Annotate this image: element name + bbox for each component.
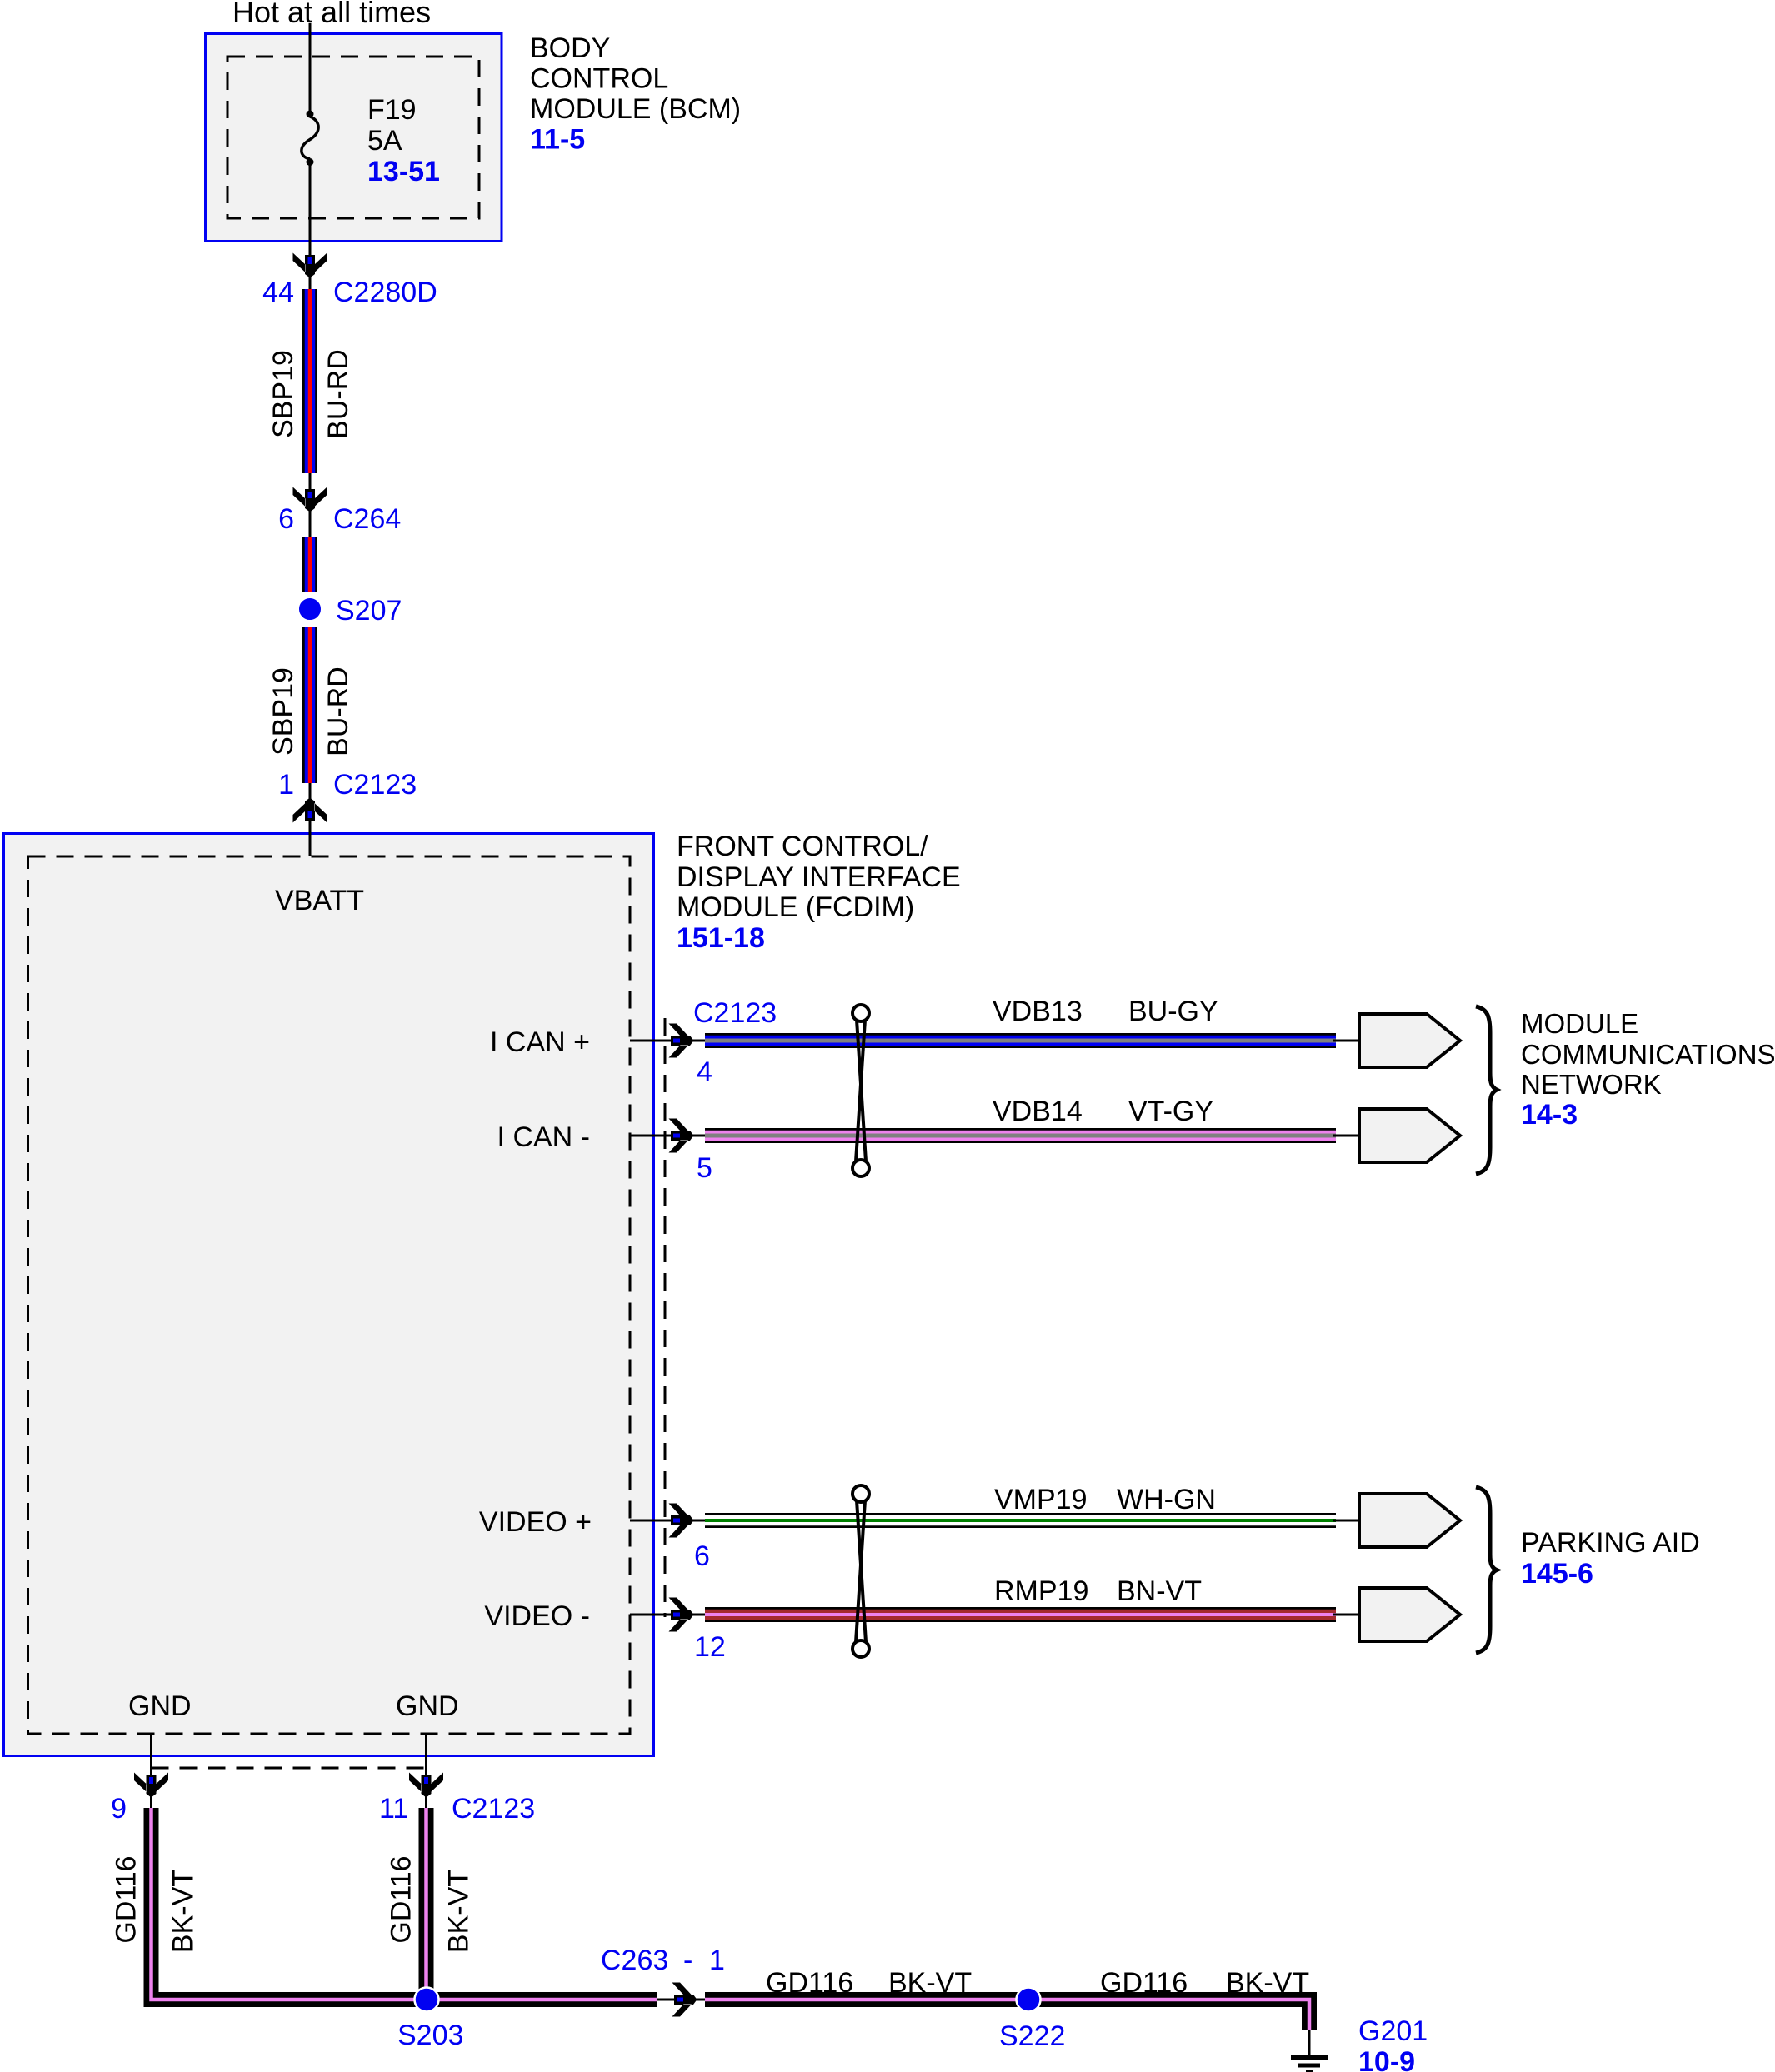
svg-text:10-9: 10-9 xyxy=(1358,2046,1415,2072)
svg-text:GD116: GD116 xyxy=(1100,1967,1187,1999)
svg-text:VIDEO +: VIDEO + xyxy=(479,1506,592,1538)
svg-text:12: 12 xyxy=(694,1631,726,1663)
svg-text:BODY: BODY xyxy=(530,32,610,64)
svg-text:G201: G201 xyxy=(1358,2015,1427,2047)
wire: between segment 1 and C264 xyxy=(309,473,312,537)
splice S207 xyxy=(298,597,322,622)
svg-text:BK-VT: BK-VT xyxy=(167,1870,199,1953)
wire RMP19 BN-VT xyxy=(705,1607,1336,1622)
svg-text:FRONT CONTROL/: FRONT CONTROL/ xyxy=(677,831,928,862)
svg-text:SBP19: SBP19 xyxy=(267,350,299,438)
svg-text:145-6: 145-6 xyxy=(1521,1558,1593,1590)
connector C2123 dashed line (right of FCDIM) xyxy=(664,1018,667,1617)
connector arrow C2123 pin 9 xyxy=(134,1773,168,1798)
pin 5 lead wire xyxy=(630,1135,705,1137)
splice S203 xyxy=(415,1988,439,2012)
svg-text:CONTROL: CONTROL xyxy=(530,63,668,95)
lead to off-page connector (pin 5) xyxy=(1333,1135,1362,1137)
svg-text:VDB13: VDB13 xyxy=(992,996,1082,1027)
connector arrow C2123 pin 12 xyxy=(669,1598,694,1632)
svg-text:6: 6 xyxy=(694,1540,710,1572)
wire SBP19 BU-RD segment 3 xyxy=(302,627,317,783)
svg-text:151-18: 151-18 xyxy=(677,922,765,954)
svg-text:GND: GND xyxy=(128,1690,192,1722)
svg-text:1: 1 xyxy=(709,1945,725,1976)
connector arrow at C264 xyxy=(293,487,327,512)
twisted pair symbol (I CAN) xyxy=(852,1005,869,1176)
lead wire to ground G201 xyxy=(1308,2030,1311,2057)
svg-text:S203: S203 xyxy=(397,2020,463,2051)
module FCDIM (FRONT CONTROL/DISPLAY INTERFACE MODULE) box xyxy=(4,834,654,1756)
svg-text:5A: 5A xyxy=(367,125,402,157)
twisted pair symbol (VIDEO) xyxy=(852,1485,869,1657)
wire: battery feed into BCM fuse xyxy=(309,23,312,114)
svg-text:MODULE (BCM): MODULE (BCM) xyxy=(530,93,741,125)
wire GD116 BK-VT left (down and right to S203) xyxy=(152,1808,427,2000)
svg-text:1: 1 xyxy=(278,769,294,801)
wire SBP19 BU-RD segment 1 xyxy=(302,289,317,473)
svg-text:I CAN +: I CAN + xyxy=(490,1026,590,1058)
lead to off-page connector (pin 12) xyxy=(1333,1614,1362,1616)
connector arrow into FCDIM xyxy=(293,798,327,823)
svg-text:I CAN -: I CAN - xyxy=(497,1121,590,1153)
svg-text:F19: F19 xyxy=(367,94,417,126)
svg-text:GD116: GD116 xyxy=(386,1855,417,1943)
svg-text:11: 11 xyxy=(379,1793,408,1825)
lead to off-page connector (pin 6) xyxy=(1333,1520,1362,1522)
svg-text:MODULE (FCDIM): MODULE (FCDIM) xyxy=(677,891,914,923)
svg-text:6: 6 xyxy=(278,503,294,535)
connector arrow at C2280D xyxy=(293,253,327,278)
pin 12 lead wire xyxy=(630,1614,705,1616)
svg-text:C264: C264 xyxy=(333,503,401,535)
ground G201 symbol xyxy=(1291,2055,1327,2072)
connector arrow C2123 pin 11 xyxy=(409,1773,443,1798)
brace: module communications network group xyxy=(1476,1006,1497,1174)
splice S222 xyxy=(1017,1988,1041,2012)
svg-text:C2123: C2123 xyxy=(693,997,777,1029)
svg-text:BK-VT: BK-VT xyxy=(443,1870,475,1953)
svg-text:VIDEO -: VIDEO - xyxy=(484,1600,590,1632)
svg-text:4: 4 xyxy=(697,1056,712,1088)
module BCM (BODY CONTROL MODULE) box xyxy=(206,34,502,242)
fuse F19 5A xyxy=(302,111,318,167)
connector arrow C2123 pin 6 xyxy=(669,1504,694,1538)
svg-text:VBATT: VBATT xyxy=(275,885,364,916)
wire: into FCDIM VBATT pin xyxy=(309,783,312,856)
svg-text:VT-GY: VT-GY xyxy=(1128,1096,1213,1127)
svg-text:GND: GND xyxy=(396,1690,459,1722)
svg-text:C2123: C2123 xyxy=(333,769,417,801)
svg-text:Hot at all times: Hot at all times xyxy=(232,0,431,29)
label: fuse F19 5A 13-51 xyxy=(367,94,440,187)
label: FRONT CONTROL/DISPLAY INTERFACE MODULE (FCDIM) 151-18 xyxy=(677,831,961,954)
svg-text:BK-VT: BK-VT xyxy=(888,1967,972,1999)
FCDIM internal connector dashed box xyxy=(28,856,631,1734)
wire VDB13 BU-GY xyxy=(705,1033,1336,1048)
svg-text:C2123: C2123 xyxy=(452,1793,535,1825)
svg-text:S222: S222 xyxy=(999,2020,1065,2052)
off-page connector (VIDEO -) xyxy=(1359,1588,1460,1641)
label: MODULE COMMUNICATIONS NETWORK 14-3 xyxy=(1521,1008,1775,1131)
wire lead through C263 break xyxy=(657,1999,705,2001)
off-page connector (VIDEO +) xyxy=(1359,1494,1460,1547)
svg-text:BK-VT: BK-VT xyxy=(1226,1967,1309,1999)
off-page connector (I CAN -) xyxy=(1359,1109,1460,1162)
wire VMP19 WH-GN xyxy=(705,1513,1336,1528)
wire VDB14 VT-GY xyxy=(705,1128,1336,1143)
svg-text:11-5: 11-5 xyxy=(530,124,585,156)
svg-text:SBP19: SBP19 xyxy=(267,667,299,756)
svg-text:GD116: GD116 xyxy=(766,1967,853,1999)
connector arrow C2123 pin 4 xyxy=(669,1024,694,1058)
svg-text:DISPLAY INTERFACE: DISPLAY INTERFACE xyxy=(677,861,961,893)
connector arrow at C263 xyxy=(672,1983,697,2017)
svg-text:13-51: 13-51 xyxy=(367,156,440,187)
svg-text:VMP19: VMP19 xyxy=(994,1484,1087,1515)
wire GD116 BK-VT from C263 to ground (through S222) xyxy=(705,2000,1309,2030)
svg-text:-: - xyxy=(683,1945,692,1976)
svg-text:VDB14: VDB14 xyxy=(992,1096,1082,1127)
pin 4 lead wire xyxy=(630,1040,705,1042)
label: PARKING AID 145-6 xyxy=(1521,1527,1700,1590)
svg-text:WH-GN: WH-GN xyxy=(1117,1484,1216,1515)
svg-text:44: 44 xyxy=(262,277,294,308)
svg-text:NETWORK: NETWORK xyxy=(1521,1069,1662,1100)
GND pin wire left xyxy=(150,1734,152,1808)
svg-text:COMMUNICATIONS: COMMUNICATIONS xyxy=(1521,1039,1775,1070)
svg-text:RMP19: RMP19 xyxy=(994,1575,1088,1607)
off-page connector (I CAN +) xyxy=(1359,1014,1460,1067)
label: BODY CONTROL MODULE (BCM) 11-5 xyxy=(530,32,741,156)
svg-text:9: 9 xyxy=(111,1793,127,1825)
connector arrow C2123 pin 5 xyxy=(669,1119,694,1153)
GND pin wire right xyxy=(425,1734,427,1808)
svg-text:BU-RD: BU-RD xyxy=(322,667,354,756)
svg-text:14-3: 14-3 xyxy=(1521,1099,1577,1131)
svg-text:GD116: GD116 xyxy=(111,1855,142,1943)
lead to off-page connector (pin 4) xyxy=(1333,1040,1362,1042)
wire: BCM fuse output down to connector C2280D xyxy=(309,165,312,290)
svg-text:C2280D: C2280D xyxy=(333,277,437,308)
svg-text:C263: C263 xyxy=(601,1945,668,1976)
pin 6 lead wire xyxy=(630,1520,705,1522)
svg-text:BN-VT: BN-VT xyxy=(1117,1575,1202,1607)
svg-text:BU-RD: BU-RD xyxy=(322,349,354,439)
svg-text:MODULE: MODULE xyxy=(1521,1008,1638,1039)
svg-text:S207: S207 xyxy=(336,595,402,627)
wire GD116 BK-VT right (down to S203) xyxy=(419,1808,434,2000)
svg-text:BU-GY: BU-GY xyxy=(1128,996,1218,1027)
wire SBP19 BU-RD segment 2 xyxy=(302,537,317,592)
wire GD116 BK-VT from S203 to C263 xyxy=(427,1992,657,2007)
brace: parking aid group xyxy=(1476,1487,1497,1653)
BCM internal connector dashed box xyxy=(227,57,479,218)
connector C2123 dashed line (bottom) xyxy=(152,1767,427,1770)
svg-text:PARKING AID: PARKING AID xyxy=(1521,1527,1700,1559)
svg-text:5: 5 xyxy=(697,1152,712,1184)
